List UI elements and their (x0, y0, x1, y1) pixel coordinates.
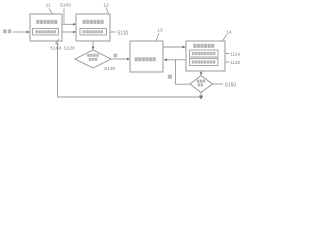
decision diamond 1 (75, 50, 111, 68)
feedback wire bottom horizontal (58, 96, 202, 98)
svg-text:13: 13 (157, 28, 163, 34)
svg-text:S120: S120 (64, 46, 76, 52)
label 12 with leader (103, 3, 109, 14)
label 13 with leader (156, 28, 163, 41)
wire box11 to box12 upper (62, 23, 76, 26)
diamond 2 text smudge (197, 80, 206, 87)
arrow diamond1 to box13 (111, 58, 130, 61)
svg-text:11: 11 (46, 3, 51, 9)
box 13 database unit (130, 41, 163, 72)
svg-text:S100: S100 (60, 3, 72, 9)
wire diamond2 bottom stub (199, 93, 203, 100)
box 12 title text smudge (83, 20, 104, 24)
label S100 with leader (60, 3, 72, 24)
box 14 compare unit right (186, 41, 225, 71)
input arrow into box 11 (13, 31, 30, 34)
output stub right of box12 (110, 31, 116, 33)
inner module box 142 (190, 59, 219, 66)
diamond 1 text smudge (87, 54, 99, 61)
wire diamond2 right output (213, 83, 224, 85)
inner module 121 text smudge (82, 30, 103, 33)
box 11 title text smudge (36, 20, 57, 24)
inner module 142 text smudge (192, 60, 216, 63)
arrow box14 down to diamond2 (200, 71, 203, 76)
box 13 text smudge (135, 57, 156, 61)
box 11 outer unit top-left (30, 14, 62, 41)
svg-text:S160: S160 (50, 46, 62, 52)
svg-text:S150: S150 (225, 83, 237, 89)
yes label on diamond1 right branch (114, 54, 118, 58)
arrow box13 to box14 (163, 46, 186, 49)
inner module box 111 (33, 29, 59, 36)
label 11 with leader (46, 3, 52, 14)
wire box14 back to box13 with left arrowhead (164, 58, 186, 61)
label S160 under box11 with leader (50, 39, 62, 52)
box 14 title text smudge (193, 44, 214, 48)
svg-text:112a: 112a (230, 52, 240, 57)
svg-text:112b: 112b (230, 60, 240, 65)
output stub B right of box14 (225, 61, 230, 63)
svg-text:S130: S130 (104, 66, 116, 72)
inner module box 141 (190, 50, 219, 57)
label 14 with leader (223, 29, 232, 40)
svg-text:14: 14 (226, 29, 232, 35)
svg-text:S110: S110 (117, 31, 129, 37)
input label text smudge (3, 29, 11, 33)
no label next to branch wire (168, 75, 172, 79)
box 12 outer unit second (76, 14, 110, 41)
inner module box 121 (80, 29, 107, 36)
output stub A right of box14 (225, 53, 230, 55)
inner module 111 text smudge (35, 30, 56, 33)
inner module 141 text smudge (192, 52, 216, 55)
arrow box12 down to diamond1 (92, 41, 95, 50)
feedback wire vertical up to box11 (56, 42, 58, 97)
wire module111 to module121 (62, 31, 76, 34)
wire branch down from return line to diamond2 left vertex (176, 60, 191, 84)
decision diamond 2 (190, 76, 213, 93)
